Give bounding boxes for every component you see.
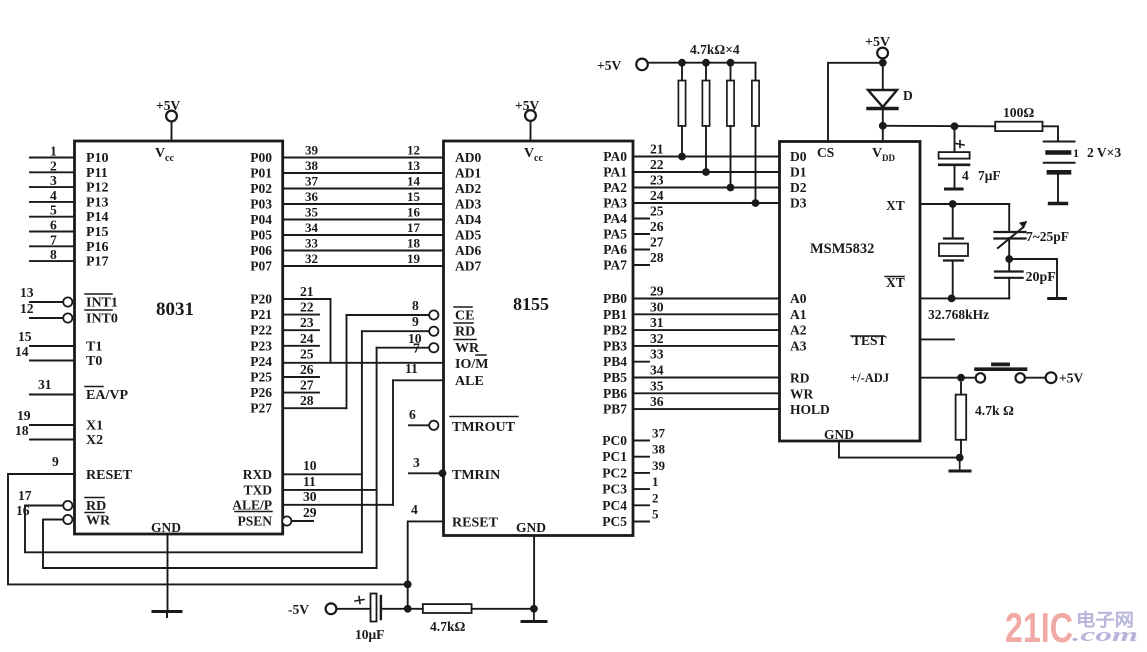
svg-text:P04: P04	[250, 212, 272, 227]
U1 pin 18 X2	[30, 439, 75, 441]
svg-text:A3: A3	[790, 338, 807, 353]
resistor R4 4.7k pull-up	[755, 63, 757, 81]
svg-text:1: 1	[50, 144, 57, 159]
wire RD net 8031	[25, 506, 362, 553]
U2 pin 8 CE	[347, 314, 430, 316]
svg-text:15: 15	[407, 189, 421, 204]
svg-text:19: 19	[407, 251, 421, 266]
svg-text:38: 38	[305, 158, 319, 173]
svg-text:P20: P20	[250, 292, 272, 307]
junction diode cathode node	[879, 122, 887, 130]
U1 pin 15 T1	[30, 345, 75, 347]
svg-text:26: 26	[650, 219, 664, 234]
svg-text:P16: P16	[86, 240, 109, 255]
svg-text:INT0: INT0	[86, 312, 118, 327]
svg-text:A0: A0	[790, 291, 807, 306]
svg-text:MSM5832: MSM5832	[810, 241, 874, 257]
svg-text:30: 30	[650, 299, 664, 314]
IC U1 8031 body	[75, 141, 283, 534]
U1 pin 5 P14 stub	[30, 216, 75, 218]
svg-text:12: 12	[407, 143, 420, 158]
svg-text:RXD: RXD	[243, 467, 272, 482]
svg-text:RESET: RESET	[452, 516, 499, 531]
wire P01-AD1 data line	[283, 172, 444, 174]
svg-text:PA5: PA5	[603, 227, 627, 242]
svg-text:31: 31	[650, 315, 664, 330]
svg-text:AD4: AD4	[455, 212, 481, 227]
svg-text:100Ω: 100Ω	[1003, 105, 1034, 120]
wire P00-AD0 data line	[283, 157, 444, 159]
svg-text:-5V: -5V	[288, 602, 309, 617]
svg-text:2: 2	[652, 490, 659, 505]
svg-text:P25: P25	[250, 370, 272, 385]
junction 8155 GND node	[530, 605, 538, 613]
+5V terminal ADJ	[1046, 372, 1057, 383]
svg-text:+/-ADJ: +/-ADJ	[850, 371, 889, 385]
svg-text:GND: GND	[516, 520, 546, 535]
svg-text:8031: 8031	[156, 299, 194, 320]
svg-text:P05: P05	[250, 228, 272, 243]
svg-text:P10: P10	[86, 151, 109, 166]
svg-text:29: 29	[650, 284, 664, 299]
svg-text:23: 23	[300, 315, 314, 330]
svg-text:39: 39	[305, 143, 319, 158]
junction pull-up R2 to D1 line	[702, 168, 710, 176]
svg-text:PA1: PA1	[603, 165, 627, 180]
svg-text:32: 32	[305, 251, 318, 266]
svg-text:4.7k Ω: 4.7k Ω	[975, 403, 1014, 418]
svg-text:AD5: AD5	[455, 228, 481, 243]
svg-text:INT1: INT1	[86, 296, 118, 311]
svg-text:PSEN: PSEN	[237, 514, 272, 529]
svg-text:CE: CE	[455, 309, 474, 324]
svg-text:DD: DD	[882, 153, 895, 163]
svg-text:18: 18	[407, 236, 421, 251]
junction ADJ node	[957, 374, 965, 382]
svg-text:7~25pF: 7~25pF	[1026, 229, 1069, 244]
U1 pin 16 WR	[46, 519, 63, 521]
junction GND node	[956, 454, 964, 462]
svg-text:27: 27	[300, 378, 314, 393]
svg-text:T0: T0	[86, 354, 102, 369]
svg-text:4: 4	[50, 188, 57, 203]
U1 GND pin wire	[167, 534, 169, 610]
svg-text:19: 19	[17, 408, 31, 423]
svg-text:cc: cc	[165, 153, 174, 164]
svg-text:P01: P01	[250, 166, 272, 181]
ground symbol battery	[1050, 202, 1067, 205]
svg-text:14: 14	[407, 174, 421, 189]
U1 pin 11 TXD	[283, 489, 377, 491]
svg-text:P21: P21	[250, 307, 272, 322]
wire to CS pin	[828, 63, 883, 142]
svg-text:A1: A1	[790, 307, 807, 322]
svg-text:PB1: PB1	[603, 307, 627, 322]
U1 pin 3 P12 stub	[30, 186, 75, 188]
svg-text:PA6: PA6	[603, 242, 627, 257]
svg-text:36: 36	[650, 394, 664, 409]
wire P27 to CE vertical	[346, 315, 348, 408]
svg-text:6: 6	[409, 407, 416, 422]
wire ALE to ALE/P vertical	[392, 380, 394, 505]
U1 pin 19 X1	[30, 424, 75, 426]
svg-text:1: 1	[652, 474, 659, 489]
svg-text:33: 33	[305, 236, 319, 251]
svg-text:P24: P24	[250, 354, 272, 369]
svg-text:ALE/P: ALE/P	[232, 497, 272, 512]
U1 pin 22 P21 stub	[283, 314, 319, 316]
svg-text:AD1: AD1	[455, 166, 481, 181]
wire U3 GND	[839, 441, 960, 458]
capacitor C3 10uF electrolytic	[336, 608, 370, 610]
U1 pin 31 EA/VP	[30, 394, 75, 396]
svg-text:PB6: PB6	[603, 386, 627, 401]
svg-text:31: 31	[38, 377, 52, 392]
U1 pin 17 RD	[46, 505, 63, 507]
svg-text:1: 1	[1073, 146, 1079, 160]
svg-text:6: 6	[50, 218, 57, 233]
svg-text:PA3: PA3	[603, 196, 627, 211]
svg-text:13: 13	[407, 158, 421, 173]
svg-text:PB3: PB3	[603, 338, 627, 353]
svg-text:P17: P17	[86, 255, 109, 270]
junction trimmer 20pF node	[1005, 255, 1013, 263]
svg-text:WR: WR	[86, 514, 111, 529]
svg-text:AD2: AD2	[455, 181, 481, 196]
IC U3 MSM5832 body	[780, 142, 921, 442]
svg-text:P03: P03	[250, 197, 272, 212]
svg-text:8: 8	[412, 298, 419, 313]
svg-text:4.7kΩ: 4.7kΩ	[430, 619, 466, 634]
wire RD vertical	[361, 331, 363, 552]
U1 pin 13 INT1	[30, 301, 63, 303]
svg-text:AD6: AD6	[455, 243, 481, 258]
U1 pin 24 P23 stub	[283, 345, 319, 347]
svg-text:PC0: PC0	[602, 433, 627, 448]
svg-text:AD0: AD0	[455, 150, 481, 165]
wire +5V rail to resistors	[648, 62, 756, 64]
U2 pin 7 IO/M	[283, 362, 444, 364]
U2 pin 28 PA7	[633, 264, 649, 266]
resistor R1 4.7k pull-up	[678, 59, 686, 67]
svg-text:35: 35	[305, 205, 319, 220]
svg-text:15: 15	[18, 329, 32, 344]
U2 pin 31 PB2	[633, 329, 780, 331]
svg-text:29: 29	[303, 505, 317, 520]
U2 pin 34 PB5	[633, 377, 780, 379]
svg-text:WR: WR	[455, 341, 480, 356]
U2 pin 4 RESET	[408, 521, 444, 584]
svg-text:AD3: AD3	[455, 197, 481, 212]
U2 pin 23 PA2	[633, 187, 780, 189]
svg-text:11: 11	[303, 474, 316, 489]
wire node to ground stub	[1009, 259, 1057, 297]
svg-text:34: 34	[650, 363, 664, 378]
svg-text:3: 3	[50, 173, 57, 188]
svg-text:4: 4	[411, 502, 418, 517]
svg-text:14: 14	[15, 344, 29, 359]
battery BT1 2Vx3	[1044, 141, 1075, 143]
ground symbol oscillator	[1049, 297, 1066, 300]
wire U2 GND pin	[533, 536, 535, 609]
svg-text:X1: X1	[86, 419, 103, 434]
U2 pin 1 PC3 stub	[633, 488, 649, 490]
switch S1 push button	[976, 373, 985, 382]
wire P02-AD2 data line	[283, 188, 444, 190]
svg-text:2 V×3: 2 V×3	[1087, 145, 1121, 160]
svg-text:PC2: PC2	[602, 465, 627, 480]
U1 pin 7 P16 stub	[30, 245, 75, 247]
U1 pin 23 P22 stub	[283, 329, 319, 331]
wire P05-AD5 data line	[283, 234, 444, 236]
svg-text:PB4: PB4	[603, 354, 627, 369]
U2 pin 6 TMROUT	[409, 424, 429, 426]
U2 pin 33 PB4	[633, 361, 649, 363]
U1 pin 6 P15 stub	[30, 231, 75, 233]
svg-text:D3: D3	[790, 196, 807, 211]
U1 pin 14 T0	[30, 360, 75, 362]
resistor R7 4.7k	[408, 608, 423, 610]
wire XT pin	[920, 203, 1009, 205]
svg-text:X2: X2	[86, 433, 103, 448]
svg-text:PB0: PB0	[603, 291, 627, 306]
svg-text:WR: WR	[790, 386, 814, 401]
U2 pin 27 PA6	[633, 249, 649, 251]
wire +5V to junction	[882, 58, 884, 62]
svg-text:P06: P06	[250, 243, 272, 258]
svg-text:21IC: 21IC	[1005, 604, 1073, 651]
U2 pin 11 ALE	[393, 379, 444, 381]
U1 pin 27 P26 stub	[283, 392, 319, 394]
svg-text:PB7: PB7	[603, 402, 627, 417]
svg-text:PB5: PB5	[603, 370, 627, 385]
svg-text:ALE: ALE	[455, 374, 484, 389]
U1 pin 21 P20 stub	[283, 298, 331, 300]
wire resistor to battery	[1043, 126, 1059, 141]
svg-text:P12: P12	[86, 181, 109, 196]
wire XT bar pin	[920, 297, 1009, 299]
resistor R6 4.7k	[960, 383, 962, 395]
svg-text:3: 3	[413, 455, 420, 470]
svg-text:34: 34	[305, 220, 319, 235]
svg-text:9: 9	[52, 454, 59, 469]
svg-text:GND: GND	[151, 520, 181, 535]
U2 pin 37 PC0 stub	[633, 440, 649, 442]
IC U2 8155 body	[444, 141, 634, 536]
wire P07-AD7 data line	[283, 265, 444, 267]
U1 pin 10 RXD	[283, 473, 362, 475]
junction +5V node	[879, 59, 887, 67]
diode D	[882, 63, 884, 90]
junction pull-up R1 to D0 line	[678, 153, 686, 161]
U2 pin 9 RD	[362, 330, 429, 332]
U2 pin 21 PA0	[633, 156, 780, 158]
svg-text:PA4: PA4	[603, 211, 627, 226]
U2 pin 2 PC4 stub	[633, 504, 649, 506]
junction pull-up R3 to D2 line	[727, 184, 735, 192]
svg-text:TMRIN: TMRIN	[452, 468, 500, 483]
svg-text:XT: XT	[886, 198, 905, 213]
svg-text:12: 12	[20, 301, 34, 316]
svg-text:25: 25	[300, 346, 314, 361]
svg-text:PA0: PA0	[603, 149, 627, 164]
U2 pin 38 PC1 stub	[633, 456, 649, 458]
svg-text:8155: 8155	[513, 294, 549, 314]
svg-text:26: 26	[300, 362, 314, 377]
U1 pin 30 ALE/P	[283, 504, 393, 506]
svg-text:10: 10	[303, 458, 317, 473]
svg-text:AD7: AD7	[455, 259, 481, 274]
svg-text:16: 16	[407, 205, 421, 220]
svg-text:5: 5	[50, 203, 57, 218]
wire ADJ pin	[920, 377, 976, 379]
U2 pin 32 PB3	[633, 345, 780, 347]
svg-text:4.7kΩ×4: 4.7kΩ×4	[690, 42, 740, 57]
wire VDD pin	[882, 126, 884, 142]
U1 pin 12 INT0	[30, 317, 63, 319]
svg-text:32.768kHz: 32.768kHz	[928, 307, 989, 322]
capacitor C2 20pF	[1008, 259, 1010, 271]
svg-text:P13: P13	[86, 195, 109, 210]
svg-text:V: V	[872, 146, 882, 161]
svg-text:10μF: 10μF	[355, 627, 384, 642]
svg-text:CS: CS	[817, 145, 834, 160]
ground symbol C1	[946, 188, 963, 191]
svg-text:PC5: PC5	[602, 514, 627, 529]
svg-text:D: D	[903, 88, 913, 103]
svg-text:37: 37	[305, 174, 319, 189]
U2 pin 22 PA1	[633, 171, 780, 173]
svg-text:.com: .com	[1072, 625, 1138, 646]
U1 pin 26 P25 stub	[283, 376, 319, 378]
wire WR net 8031	[43, 520, 377, 569]
svg-text:P26: P26	[250, 385, 272, 400]
svg-text:cc: cc	[534, 153, 543, 164]
U2 pin 36 PB7	[633, 408, 780, 410]
svg-text:17: 17	[18, 488, 32, 503]
resistor R3 4.7k pull-up	[727, 59, 735, 67]
U2 pin 10 WR	[377, 347, 429, 349]
U1 pin 4 P13 stub	[30, 201, 75, 203]
svg-text:PC1: PC1	[602, 449, 627, 464]
svg-text:24: 24	[300, 331, 314, 346]
resistor R2 4.7k pull-up	[702, 59, 710, 67]
U2 pin 26 PA5	[633, 233, 649, 235]
svg-text:P14: P14	[86, 210, 109, 225]
svg-text:+5V: +5V	[597, 58, 621, 73]
svg-text:18: 18	[15, 423, 29, 438]
junction XT bar crystal	[948, 295, 956, 303]
svg-text:D2: D2	[790, 180, 807, 195]
svg-text:P07: P07	[250, 259, 272, 274]
svg-text:TMROUT: TMROUT	[452, 420, 516, 435]
junction XT crystal	[949, 200, 957, 208]
U2 pin 35 PB6	[633, 392, 780, 394]
ground symbol U1	[153, 610, 181, 613]
svg-text:4: 4	[962, 168, 969, 183]
svg-text:PC4: PC4	[602, 498, 627, 513]
trimmer capacitor CT 7-25pF	[1008, 204, 1010, 231]
ground symbol U3	[959, 458, 961, 470]
svg-text:32: 32	[650, 331, 664, 346]
resistor R5 100ohm	[995, 122, 1042, 131]
junction RESET net	[404, 581, 412, 589]
wire P04-AD4 data line	[283, 219, 444, 221]
svg-text:PC3: PC3	[602, 482, 627, 497]
capacitor C1 4.7uF electrolytic	[954, 126, 956, 152]
svg-text:7μF: 7μF	[978, 168, 1001, 183]
svg-text:RD: RD	[790, 371, 810, 386]
svg-text:7: 7	[50, 232, 57, 247]
svg-text:+5V: +5V	[1059, 371, 1083, 386]
svg-text:30: 30	[303, 489, 317, 504]
svg-text:P22: P22	[250, 323, 272, 338]
svg-text:35: 35	[650, 378, 664, 393]
svg-text:21: 21	[300, 284, 314, 299]
U1 pin 1 P10 stub	[30, 157, 75, 159]
svg-text:P00: P00	[250, 150, 272, 165]
U1 pin 8 P17 stub	[30, 260, 75, 262]
svg-text:P02: P02	[250, 181, 272, 196]
svg-text:17: 17	[407, 220, 421, 235]
svg-text:11: 11	[405, 361, 418, 376]
svg-text:D1: D1	[790, 165, 807, 180]
svg-text:RD: RD	[455, 325, 475, 340]
svg-text:D0: D0	[790, 149, 807, 164]
svg-text:GND: GND	[824, 427, 854, 442]
U2 pin 5 PC5 stub	[633, 521, 649, 523]
svg-text:39: 39	[652, 458, 666, 473]
svg-text:27: 27	[650, 235, 664, 250]
svg-text:PA7: PA7	[603, 258, 627, 273]
svg-text:25: 25	[650, 204, 664, 219]
svg-text:33: 33	[650, 347, 664, 362]
svg-text:V: V	[524, 146, 534, 161]
svg-text:23: 23	[650, 173, 664, 188]
svg-text:37: 37	[652, 426, 666, 441]
U2 pin 39 PC2 stub	[633, 472, 649, 474]
wire diode node to battery resistor	[883, 125, 995, 128]
svg-text:9: 9	[412, 314, 419, 329]
svg-text:PB2: PB2	[603, 323, 627, 338]
svg-text:20pF: 20pF	[1026, 270, 1056, 285]
svg-text:HOLD: HOLD	[790, 402, 830, 417]
wire P06-AD6 data line	[283, 250, 444, 252]
U1 pin 29 PSEN	[291, 520, 313, 522]
wire RESET net 8031	[8, 474, 408, 584]
U2 pin 29 PB0	[633, 298, 780, 300]
wire TEST stub	[920, 338, 954, 340]
svg-text:36: 36	[305, 189, 319, 204]
svg-text:P11: P11	[86, 166, 108, 181]
svg-text:13: 13	[20, 285, 34, 300]
U2 pin 25 PA4	[633, 218, 649, 220]
svg-text:8: 8	[50, 247, 57, 262]
ground symbol U2	[533, 609, 535, 621]
svg-text:PA2: PA2	[603, 180, 627, 195]
svg-text:2: 2	[50, 158, 57, 173]
U2 pin 24 PA3	[633, 202, 780, 204]
junction capacitor C1 tap	[951, 122, 959, 130]
U2 pin 30 PB1	[633, 313, 780, 315]
svg-text:TXD: TXD	[243, 482, 272, 497]
svg-text:P23: P23	[250, 338, 272, 353]
junction pull-up R4 to D3 line	[752, 199, 760, 207]
wire P03-AD3 data line	[283, 203, 444, 205]
svg-text:28: 28	[650, 250, 664, 265]
svg-text:22: 22	[650, 157, 664, 172]
svg-text:24: 24	[650, 188, 664, 203]
